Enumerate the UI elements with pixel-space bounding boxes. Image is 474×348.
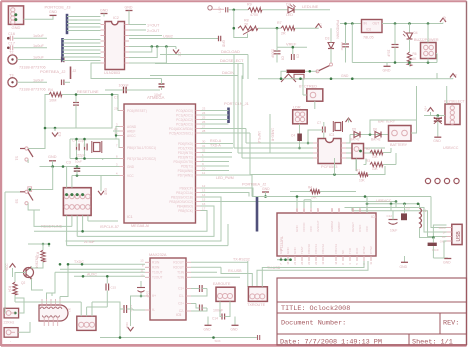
svg-text:2=OUT: 2=OUT <box>147 29 160 33</box>
svg-text:X1: X1 <box>67 308 71 312</box>
wire rail up x228 <box>227 224 229 246</box>
wire vertical from DACLOAD down <box>247 55 249 80</box>
svg-text:10K: 10K <box>359 179 366 183</box>
wire VREF vertical <box>276 28 278 47</box>
svg-text:PWRDOWN: PWRDOWN <box>336 20 340 39</box>
wire R8 wiper loop <box>234 28 248 37</box>
bus PORTCDE_J3 <box>66 14 69 34</box>
wire PB4 down <box>77 206 214 236</box>
svg-text:T3: T3 <box>9 73 13 77</box>
svg-text:TXROUTE: TXROUTE <box>247 303 266 307</box>
wire buzz box bottom <box>427 59 429 63</box>
wire S3 top right <box>32 167 53 190</box>
svg-text:GND: GND <box>295 225 299 233</box>
svg-text:C14: C14 <box>212 317 218 321</box>
svg-text:PB1(OC1A): PB1(OC1A) <box>176 191 193 195</box>
wire xtal2 to IC1 <box>114 158 124 160</box>
wire TXDC <box>68 263 145 265</box>
connector USB pin stubs <box>447 227 452 229</box>
svg-text:28: 28 <box>202 129 206 133</box>
svg-text:T1OUT: T1OUT <box>152 271 163 275</box>
svg-text:11: 11 <box>140 269 143 273</box>
svg-text:ISPCLK-57: ISPCLK-57 <box>100 225 119 229</box>
wire db9 pin3 up <box>51 293 53 296</box>
capacitor C22 V- <box>123 305 125 313</box>
svg-text:EAROUTE: EAROUTE <box>213 282 231 286</box>
svg-text:22: 22 <box>314 261 318 265</box>
gnd below pb3 wire <box>395 202 397 209</box>
wire J5 stub <box>11 331 15 333</box>
jack T3 <box>8 78 17 87</box>
capacitor C1 <box>123 87 125 94</box>
wire crystal top rail <box>70 139 124 148</box>
svg-text:TXD-A: TXD-A <box>210 144 221 148</box>
svg-text:PD5(T1): PD5(T1) <box>181 164 193 168</box>
wire pre-regulator vertical <box>351 24 353 63</box>
svg-text:RX-USB: RX-USB <box>228 269 242 273</box>
wire rtc int <box>346 147 385 149</box>
svg-text:AREF: AREF <box>127 129 136 133</box>
wire IC2 pin5 row with junctions <box>129 46 176 48</box>
svg-text:R1OUT: R1OUT <box>173 261 184 265</box>
capacitor C21 max232 <box>199 305 201 312</box>
ic IC1 right pin stubs <box>196 110 201 112</box>
svg-text:USB: USB <box>456 231 462 242</box>
wire max232 T2IN <box>191 276 240 278</box>
transistor Q2 <box>24 268 34 278</box>
wire 1meg vertical <box>269 114 271 153</box>
connector J5 box <box>4 328 18 338</box>
svg-text:R4: R4 <box>48 88 53 92</box>
ground symbol keyselect <box>434 136 441 138</box>
ic IC1 body <box>124 104 196 223</box>
wire rtc clkout <box>346 152 380 154</box>
svg-text:23: 23 <box>307 261 311 265</box>
svg-text:1u0uF: 1u0uF <box>33 56 44 60</box>
svg-text:BAT42: BAT42 <box>350 138 360 142</box>
wire battery from +5 <box>370 120 417 135</box>
svg-text:1u0uF: 1u0uF <box>33 34 44 38</box>
svg-text:GND: GND <box>293 247 297 255</box>
svg-text:VCC: VCC <box>5 263 9 270</box>
ground symbol near bus <box>262 191 269 193</box>
resistor R13 <box>41 250 45 262</box>
wire to PCF pin1 <box>246 142 313 144</box>
connector LDR box <box>293 110 308 124</box>
wire isp row 4 <box>88 220 118 222</box>
capacitor C2 <box>159 83 165 85</box>
wire left rail <box>4 192 6 308</box>
wire max232 T1IN <box>191 271 217 273</box>
wires ISP bottom drops <box>71 215 73 226</box>
svg-text:LED: LED <box>286 13 293 17</box>
wire R4 left loop <box>45 95 112 129</box>
wire usb gnd rail <box>433 257 447 259</box>
wire battery to +5v <box>411 86 417 133</box>
wire C16 to right <box>14 37 48 39</box>
connector SV1 box <box>8 6 23 25</box>
svg-text:GND: GND <box>125 6 133 10</box>
svg-text:R2: R2 <box>366 147 370 151</box>
svg-text:R4: R4 <box>308 186 312 190</box>
svg-text:18: 18 <box>286 261 290 265</box>
svg-text:29: 29 <box>114 107 118 111</box>
bus PORTBEA_J2 (blue) <box>61 38 64 62</box>
svg-text:TEST: TEST <box>300 246 304 254</box>
svg-text:10: 10 <box>140 274 144 278</box>
switch S1 <box>25 147 28 150</box>
wire net vertical 5 <box>249 133 251 175</box>
connector EAROUTE box <box>216 287 235 301</box>
wire T3 cap to right <box>64 81 70 83</box>
title block Sheet divider <box>408 334 410 345</box>
svg-text:USBVCC: USBVCC <box>376 199 392 203</box>
svg-text:R13: R13 <box>36 252 40 258</box>
wires ISP top to rail <box>66 167 68 188</box>
wire PB0 down <box>201 188 254 197</box>
wire gnd rail y166.5 <box>40 166 120 168</box>
wire crystal rail end <box>102 159 104 161</box>
wires SJ2 up <box>80 302 82 316</box>
ground symbol above IC2 <box>101 13 108 15</box>
svg-text:R1IN: R1IN <box>152 261 160 265</box>
wire buzz box top <box>427 24 429 43</box>
ic IC2 left pin stubs <box>101 24 106 26</box>
capacitor C12 usb <box>389 223 398 225</box>
svg-text:RESET: RESET <box>351 222 355 232</box>
wire J4 right <box>15 298 24 313</box>
wire TP1 down to trimpot row <box>233 10 235 28</box>
bus PORTC (blue) <box>227 108 230 124</box>
svg-text:GND: GND <box>400 265 408 269</box>
wire row y90 <box>105 89 124 91</box>
switch S3 top pad <box>28 187 32 192</box>
ferrite bead L2 <box>428 243 437 246</box>
frame left edge <box>0 1 2 346</box>
svg-text:1u0uF: 1u0uF <box>33 78 44 82</box>
connector J4 box <box>4 308 19 318</box>
capacitor C23 polarized <box>140 281 142 287</box>
svg-text:D4: D4 <box>414 31 418 35</box>
svg-text:3V3OUT: 3V3OUT <box>316 220 320 232</box>
svg-text:100nF: 100nF <box>340 42 344 51</box>
wire LDR down <box>299 124 301 134</box>
svg-text:D6: D6 <box>373 128 377 132</box>
wire battery rail <box>350 134 389 136</box>
wires ft232 osc drops <box>303 200 305 208</box>
buzzer bar SP1 <box>287 70 306 73</box>
svg-text:21: 21 <box>293 261 297 265</box>
wire PD3 long <box>201 156 233 158</box>
wire tx-usb <box>257 261 368 287</box>
wire sj2 feed <box>15 301 81 303</box>
svg-text:GND: GND <box>222 40 226 48</box>
supply arrow +5V at R7 <box>316 24 322 28</box>
svg-text:Document Number:: Document Number: <box>281 320 346 328</box>
wire ft232 gnd bundle <box>280 260 282 261</box>
wire long y174.5 <box>250 174 358 176</box>
connector ISP bottom circles <box>64 205 69 210</box>
svg-text:TXD: TXD <box>348 247 352 254</box>
svg-text:PORTC1N_J1: PORTC1N_J1 <box>224 101 249 106</box>
title block line below TITLE row <box>277 312 467 314</box>
connector KEYSELECT box <box>445 104 460 125</box>
wire IC2 pin8 down <box>129 47 166 64</box>
wire sj1 down <box>356 159 358 172</box>
svg-text:2K: 2K <box>244 22 249 26</box>
svg-text:PORTBEA_J2: PORTBEA_J2 <box>40 69 66 74</box>
wire DACLOAD <box>160 54 248 56</box>
svg-text:PD6(AIN0): PD6(AIN0) <box>178 169 193 173</box>
wire PD6 LCD label <box>201 170 230 172</box>
svg-text:TXDC: TXDC <box>74 260 84 264</box>
ic IC2 body <box>105 22 125 70</box>
wire R8 to R7 <box>258 27 281 29</box>
svg-text:R14: R14 <box>8 286 12 292</box>
connector X1 top pins <box>40 307 44 309</box>
wire crystal bottom rail <box>70 158 114 160</box>
svg-text:MEGA8-AI: MEGA8-AI <box>131 224 149 228</box>
svg-text:D-: D- <box>443 231 446 235</box>
wire row4 to max <box>55 271 145 273</box>
connector BTCTRED box <box>307 89 323 101</box>
wire net vertical 3 <box>241 76 243 159</box>
gnd arrow near ISP <box>100 176 102 191</box>
mount hole H1 <box>425 178 430 183</box>
wire q2 top <box>28 243 49 245</box>
svg-text:+5V: +5V <box>443 15 447 22</box>
resistor R12 pullup <box>358 172 368 176</box>
wire TP2 to pad <box>213 8 224 10</box>
wire C17 to right <box>14 47 48 49</box>
ic IC5 left pins <box>145 261 150 263</box>
svg-text:GND: GND <box>433 139 441 143</box>
svg-text:GND: GND <box>231 328 239 332</box>
svg-text:SCK: SCK <box>215 339 221 343</box>
wire net vertical 1 <box>233 55 235 149</box>
svg-text:ATMEGA: ATMEGA <box>147 95 165 100</box>
svg-text:GND: GND <box>48 155 57 159</box>
svg-text:R6: R6 <box>413 52 417 56</box>
wire TP1 to R9 <box>228 9 248 11</box>
svg-text:DACIN: DACIN <box>222 70 234 75</box>
svg-text:13: 13 <box>321 261 325 265</box>
buzzer box part <box>294 74 304 79</box>
svg-text:TITLE: Oclock2008: TITLE: Oclock2008 <box>281 305 350 313</box>
supply arrow rtc <box>346 118 352 122</box>
wire R9 to LED D2 <box>262 9 288 11</box>
wire vcc rail y175.5 <box>72 175 120 177</box>
svg-text:LSP: LSP <box>218 6 222 12</box>
supply arrow keyselect <box>428 108 434 112</box>
svg-text:17: 17 <box>316 208 320 212</box>
diode D4 power LED <box>409 24 411 34</box>
capacitor on T3 line <box>61 80 63 86</box>
svg-text:C7: C7 <box>319 23 323 27</box>
svg-text:GND: GND <box>279 247 283 255</box>
wire PD5 <box>201 165 230 167</box>
svg-text:C7: C7 <box>317 121 321 125</box>
svg-text:GND: GND <box>104 188 108 196</box>
wires bus J2 to IC2 left pins <box>63 39 101 41</box>
svg-text:L1: L1 <box>423 209 427 213</box>
wire buzzer to switch <box>305 70 318 72</box>
connector X1 DB9 body <box>39 305 68 321</box>
svg-text:PC0(ADC0): PC0(ADC0) <box>176 109 193 113</box>
wire txroute third pin <box>262 261 364 287</box>
svg-text:GND: GND <box>127 165 135 169</box>
wire rtc i2c sda <box>201 128 247 130</box>
wire IC2 gnd drop <box>91 63 162 79</box>
svg-text:RXD: RXD <box>355 247 359 254</box>
test pad bottom rail <box>257 335 259 340</box>
wire gnd to rail <box>265 192 267 197</box>
svg-text:27: 27 <box>202 125 206 129</box>
svg-text:IC5: IC5 <box>176 313 181 317</box>
switch S3 <box>25 190 28 193</box>
ic IC1 left pin stubs <box>120 110 125 112</box>
svg-text:PC2(ADC2): PC2(ADC2) <box>176 118 193 122</box>
wire rtc vcc right <box>346 135 350 144</box>
bus PORTBEA_J2 lower (blue) <box>256 197 259 232</box>
svg-text:KEYSELECT: KEYSELECT <box>444 99 465 103</box>
wire PB5 down <box>34 211 207 232</box>
wire sj2 right to bottom rail <box>92 302 120 338</box>
wire db9 pin5 up <box>59 297 61 300</box>
wire IC2 out3 USB2 <box>129 35 162 37</box>
svg-text:PB3(MOSI/OC2): PB3(MOSI/OC2) <box>169 200 193 204</box>
wire J4 to left rail <box>3 308 6 313</box>
wire to usb shield <box>433 225 446 238</box>
svg-text:PD4(XCK/T0): PD4(XCK/T0) <box>174 160 193 164</box>
svg-text:T1IN: T1IN <box>177 271 185 275</box>
wire PD7 <box>201 175 253 197</box>
frame top edge <box>1 0 467 2</box>
svg-text:C4: C4 <box>291 134 295 138</box>
svg-text:VCC: VCC <box>125 322 129 329</box>
wire IC2 pin to top gnd <box>128 11 130 25</box>
ic PCF8563 left pins <box>313 142 318 144</box>
diode D2 LED <box>288 7 294 13</box>
svg-text:BTCTRED: BTCTRED <box>299 85 317 89</box>
capacitor C19 keyselect <box>434 117 442 119</box>
capacitor C13 usb smd <box>401 213 407 220</box>
wire usb rail y204 <box>367 203 418 205</box>
svg-text:13: 13 <box>140 259 144 263</box>
connector SV1 pin circles <box>11 8 15 12</box>
wire usbdp pair <box>352 208 447 237</box>
frame bottom band <box>1 344 467 347</box>
svg-text:V-: V- <box>152 308 155 312</box>
resistor R6 1K <box>407 52 411 66</box>
mount hole H2 <box>435 178 440 183</box>
svg-text:10uF: 10uF <box>387 50 391 57</box>
wire S1 bottom <box>27 160 29 164</box>
svg-text:GND: GND <box>49 10 57 14</box>
test pad TP1 top <box>225 7 227 12</box>
test point TP2 circle <box>208 6 212 10</box>
svg-text:Date: 7/7/2008 1:49:13 PM: Date: 7/7/2008 1:49:13 PM <box>280 339 382 347</box>
supply arrow right rail <box>450 74 456 78</box>
capacitor C20 max232 <box>199 285 201 292</box>
svg-text:22KHz: 22KHz <box>4 321 15 325</box>
wire to PCF pin2 <box>234 147 313 149</box>
wire IC2 out1 <box>129 24 146 26</box>
svg-text:TX-RS232: TX-RS232 <box>233 258 250 262</box>
resistor R9 <box>248 8 262 12</box>
ic IC5 MAX232 body <box>150 258 186 320</box>
capacitor C4 <box>76 144 78 151</box>
capacitor C5 <box>84 144 86 151</box>
ic IC4 bottom pin stubs <box>280 256 282 261</box>
wire keyselect row <box>430 112 432 116</box>
svg-text:PC5(ADC5/SCL): PC5(ADC5/SCL) <box>169 131 193 135</box>
ground symbol crystal <box>49 160 56 162</box>
mount hole H3 <box>444 178 449 183</box>
wire r14 bottom <box>14 295 16 302</box>
svg-text:26: 26 <box>302 208 306 212</box>
wire bead vertical <box>432 238 434 243</box>
wire R7 to supply arrow <box>295 27 319 29</box>
svg-text:DACLOAD: DACLOAD <box>221 49 240 54</box>
svg-text:10uF: 10uF <box>390 229 397 233</box>
svg-text:D+: D+ <box>442 235 446 239</box>
wire earoute down2 <box>225 301 230 316</box>
ic PCF8563 right pins <box>341 142 346 144</box>
svg-text:PC6(/RESET): PC6(/RESET) <box>127 109 147 113</box>
svg-text:RTS#: RTS# <box>362 246 366 254</box>
svg-text:C16: C16 <box>8 32 15 36</box>
svg-text:V+: V+ <box>152 294 156 298</box>
svg-text:C12: C12 <box>387 214 393 218</box>
svg-text:C1+: C1+ <box>178 287 184 291</box>
crystal Q1 <box>94 143 101 152</box>
wire R15 right <box>320 191 356 193</box>
svg-text:AUXC: AUXC <box>87 272 97 276</box>
wire PCF drop <box>334 158 336 175</box>
svg-text:CBUS3: CBUS3 <box>334 244 338 254</box>
wire usbdm pair <box>345 208 447 233</box>
title block outer box <box>277 278 467 345</box>
wire ft232 pin1 drop <box>296 197 298 214</box>
wire L1 top <box>418 204 420 208</box>
svg-text:100nF: 100nF <box>213 309 224 313</box>
capacitor C10 at 7805 input <box>342 43 349 45</box>
wire left rail top link <box>5 191 20 193</box>
wire to PCF pin4 <box>242 157 313 159</box>
svg-text:PB2(SS/OC1B): PB2(SS/OC1B) <box>171 195 193 199</box>
wire L1 bottom <box>420 228 434 238</box>
svg-text:100nF: 100nF <box>271 49 275 58</box>
wire IC2 pin4 long to test pad <box>129 38 219 40</box>
svg-text:PC1(ADC1): PC1(ADC1) <box>176 113 193 117</box>
svg-text:11: 11 <box>369 261 373 264</box>
svg-text:OUT: OUT <box>373 22 380 26</box>
svg-text:BUZZ/POWER: BUZZ/POWER <box>414 38 439 42</box>
svg-text:PORTCDE_J3: PORTCDE_J3 <box>45 5 72 10</box>
svg-text:C8: C8 <box>281 56 285 60</box>
svg-text:1u0uF: 1u0uF <box>33 44 44 48</box>
wire 7805 out rail <box>382 23 443 25</box>
ic IC4 top pin stubs <box>296 208 298 213</box>
resistor R14 <box>13 282 17 295</box>
resistor R5 smd <box>297 134 302 142</box>
svg-text:Q2: Q2 <box>21 281 25 285</box>
svg-text:78L05: 78L05 <box>363 36 374 40</box>
wire IC2 pin6 down <box>129 47 152 53</box>
diode D6 BAT42 <box>375 132 381 138</box>
wire IC2 out2 <box>129 29 146 31</box>
